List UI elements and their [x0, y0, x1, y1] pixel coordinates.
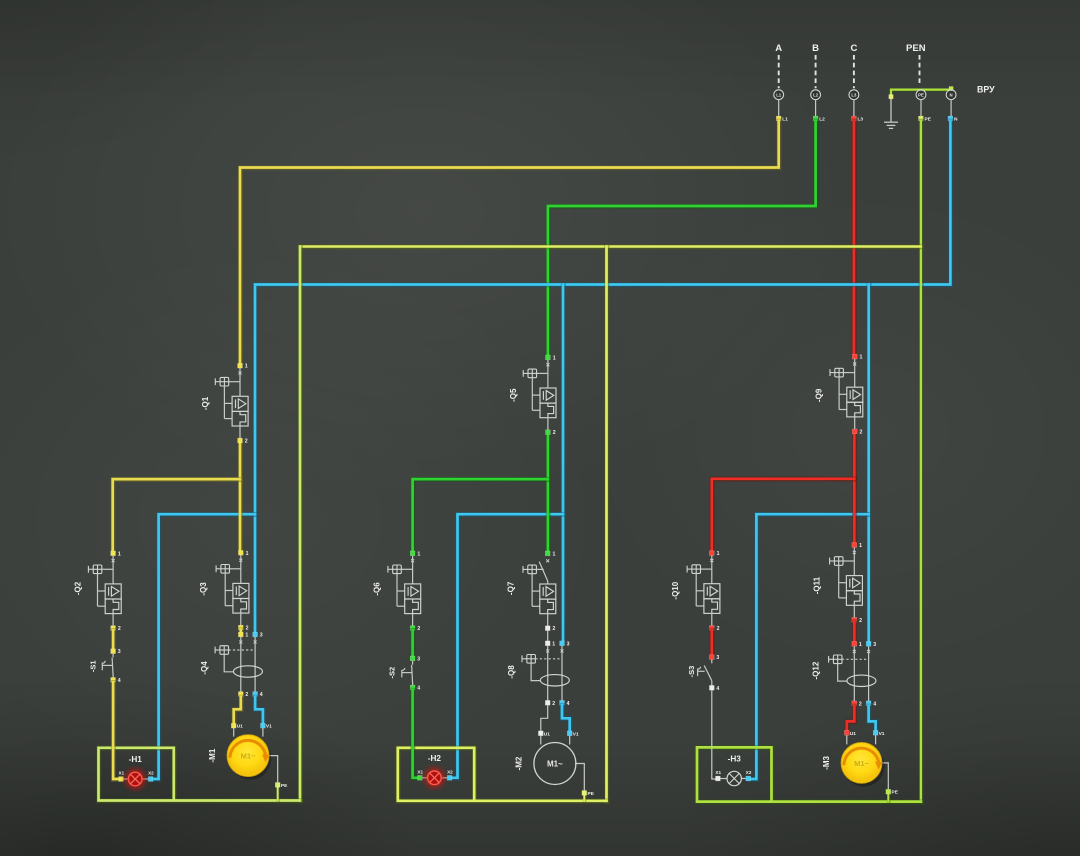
svg-text:2: 2 — [552, 701, 555, 707]
node A (phase A incomer) — [774, 43, 788, 122]
svg-text:PE: PE — [892, 790, 899, 796]
switch -S1 — [89, 649, 121, 684]
wire Q10 to S3 — [709, 630, 714, 655]
wire Q12 to motor M3 phase — [847, 706, 855, 731]
motor -M1 — [208, 723, 288, 789]
terminal PE of -M3 — [886, 789, 891, 794]
svg-text:4: 4 — [873, 701, 876, 707]
svg-text:4: 4 — [567, 701, 570, 707]
node PEN incomer — [906, 43, 926, 86]
circuit breaker -Q1 — [201, 363, 248, 444]
wire PE drop group 2 — [604, 247, 609, 802]
circuit breaker -Q3 — [199, 550, 249, 631]
circuit breaker -Q2 — [74, 551, 122, 632]
wire Q12 to motor M3 neutral — [869, 706, 876, 731]
svg-text:N: N — [950, 92, 953, 97]
svg-text:V1: V1 — [879, 731, 885, 737]
svg-text:2: 2 — [859, 701, 862, 707]
motor -M2 — [515, 731, 595, 797]
wire PE-N link — [891, 90, 951, 97]
svg-text:1: 1 — [553, 355, 556, 361]
svg-text:A: A — [775, 43, 782, 54]
ground (earth symbol) — [884, 99, 898, 128]
wire Q8 to motor M2 phase (de-energized) — [541, 705, 548, 731]
circuit breaker -Q6 — [373, 551, 421, 632]
svg-text:2: 2 — [860, 429, 863, 435]
node PE — [916, 90, 932, 123]
svg-text:PE: PE — [925, 116, 932, 122]
svg-text:-Q2: -Q2 — [74, 581, 83, 595]
svg-text:2: 2 — [553, 430, 556, 436]
svg-text:X2: X2 — [746, 770, 752, 775]
svg-text:-Q11: -Q11 — [813, 576, 822, 594]
node B (phase B incomer) — [811, 43, 825, 122]
svg-text:1: 1 — [553, 551, 556, 557]
svg-text:1: 1 — [717, 551, 720, 557]
wire Q11 to Q12 — [852, 622, 857, 642]
svg-text:-Q3: -Q3 — [199, 582, 208, 596]
svg-text:-H3: -H3 — [728, 755, 742, 764]
svg-text:V1: V1 — [266, 724, 272, 730]
wire phase A branch to Q2 — [113, 479, 241, 551]
svg-text:-Q6: -Q6 — [373, 582, 382, 596]
svg-text:2: 2 — [417, 626, 420, 632]
svg-text:-S3: -S3 — [687, 666, 696, 678]
wire phase A bus (yellow) — [240, 121, 779, 364]
svg-text:-S1: -S1 — [89, 660, 98, 672]
svg-text:3: 3 — [118, 649, 121, 655]
wire S1 to lamp H1 — [113, 682, 119, 779]
wire PE enclosure lamp H1 — [99, 748, 301, 801]
svg-text:1: 1 — [859, 543, 862, 549]
svg-text:M1~: M1~ — [241, 752, 256, 761]
svg-text:1: 1 — [245, 633, 248, 639]
svg-text:X1: X1 — [715, 770, 721, 775]
svg-text:L1: L1 — [782, 116, 788, 122]
wire phase C feeder — [852, 434, 857, 543]
wire Q2 to S1 — [111, 630, 116, 649]
RCD -Q4 — [200, 632, 263, 698]
circuit breaker -Q5 — [509, 355, 556, 436]
svg-text:4: 4 — [118, 678, 121, 684]
signal lamp -H1 — [119, 755, 155, 793]
svg-text:PEN: PEN — [906, 43, 926, 54]
svg-text:U1: U1 — [237, 724, 243, 730]
switch -S2 — [388, 656, 421, 692]
svg-text:4: 4 — [260, 692, 263, 698]
wire phase B branch to Q6 — [413, 479, 549, 551]
svg-text:-Q4: -Q4 — [200, 661, 209, 675]
wire phase C bus (red) — [851, 121, 856, 355]
svg-text:2: 2 — [553, 626, 556, 632]
signal lamp -H2 — [417, 754, 453, 792]
svg-text:-S2: -S2 — [388, 667, 397, 679]
wire Q8 to motor M2 neutral — [562, 705, 570, 731]
wire phase C branch to Q10 — [712, 479, 855, 551]
wire Q3 to Q4 — [238, 630, 243, 633]
svg-text:M1~: M1~ — [547, 760, 563, 769]
svg-text:-M2: -M2 — [515, 756, 524, 770]
svg-text:U1: U1 — [544, 731, 550, 737]
switch -S3 — [687, 655, 719, 692]
terminal ground node — [889, 95, 893, 99]
signal lamp -H3 — [715, 755, 751, 786]
node N — [946, 90, 958, 123]
svg-text:L2: L2 — [813, 92, 819, 97]
circuit breaker -Q7 — [506, 551, 556, 632]
svg-text:PE: PE — [588, 791, 595, 797]
wire N branch to lamp H3 — [751, 514, 869, 779]
wire N drop group 2 — [561, 285, 566, 642]
svg-text:1: 1 — [245, 364, 248, 370]
circuit breaker -Q11 — [813, 543, 863, 624]
svg-text:-Q8: -Q8 — [507, 665, 516, 679]
svg-text:-M3: -M3 — [822, 755, 831, 769]
svg-text:ВРУ: ВРУ — [977, 85, 995, 95]
svg-text:-Q12: -Q12 — [812, 661, 821, 679]
svg-text:3: 3 — [417, 656, 420, 662]
svg-text:V1: V1 — [573, 731, 579, 737]
svg-text:4: 4 — [417, 686, 420, 692]
svg-text:L3: L3 — [851, 92, 857, 97]
terminal PE of -M2 — [582, 791, 587, 796]
svg-text:C: C — [850, 43, 857, 54]
svg-text:-Q1: -Q1 — [201, 396, 210, 410]
wire S3 to lamp H3 (de-energized) — [712, 690, 716, 779]
wire PE enclosure lamp H2 — [398, 748, 607, 801]
svg-text:1: 1 — [118, 551, 121, 557]
svg-text:M1~: M1~ — [854, 759, 869, 768]
wire PE enclosure lamp H3 — [697, 747, 921, 802]
svg-text:-Q9: -Q9 — [814, 388, 823, 402]
svg-text:-H2: -H2 — [428, 754, 442, 763]
wire PE main bus — [918, 121, 923, 802]
svg-text:3: 3 — [873, 642, 876, 648]
node junction on N — [949, 87, 953, 91]
svg-text:X2: X2 — [447, 769, 453, 774]
node C (phase C incomer) — [849, 43, 863, 122]
wire N branch to lamp H1 — [153, 514, 255, 779]
svg-text:L1: L1 — [776, 92, 782, 97]
wire PE drop group 1 — [298, 247, 303, 801]
wire Q4 to motor M1 phase — [234, 697, 241, 724]
wire PE stub motor M1 — [276, 787, 280, 801]
wire N branch to lamp H2 — [452, 514, 563, 778]
svg-text:1: 1 — [860, 355, 863, 361]
wire phase B bus (green) — [548, 121, 816, 356]
svg-text:1: 1 — [552, 641, 555, 647]
svg-text:2: 2 — [717, 626, 720, 632]
wire N bus (blue) — [255, 121, 951, 633]
wire PE horizontal bus — [300, 244, 921, 249]
svg-text:PE: PE — [281, 783, 288, 789]
svg-text:3: 3 — [716, 655, 719, 661]
svg-text:2: 2 — [245, 439, 248, 445]
wire N drop group 3 — [866, 285, 871, 642]
circuit breaker -Q10 — [671, 551, 720, 632]
svg-text:-H1: -H1 — [129, 755, 143, 764]
svg-text:1: 1 — [417, 551, 420, 557]
svg-text:2: 2 — [245, 692, 248, 698]
terminal PE of -M1 — [275, 783, 280, 788]
motor -M3 — [822, 730, 899, 795]
svg-text:L3: L3 — [858, 116, 864, 122]
svg-text:-Q10: -Q10 — [671, 581, 680, 599]
wire phase B feeder — [545, 436, 550, 551]
svg-text:1: 1 — [859, 642, 862, 648]
svg-text:2: 2 — [118, 626, 121, 632]
svg-text:3: 3 — [567, 641, 570, 647]
wire phase A feeder — [238, 443, 243, 551]
svg-text:-Q7: -Q7 — [506, 581, 515, 595]
svg-text:X2: X2 — [148, 771, 154, 776]
svg-text:PE: PE — [918, 92, 924, 97]
svg-text:L2: L2 — [819, 116, 825, 122]
RCD -Q8 — [507, 641, 570, 707]
svg-text:U1: U1 — [850, 731, 856, 737]
wire Q4 to motor M1 neutral — [255, 697, 263, 724]
circuit breaker -Q9 — [814, 354, 863, 435]
wire S2 to lamp H2 — [413, 690, 418, 778]
wire Q7 to Q8 (de-energized) — [547, 630, 549, 641]
svg-text:2: 2 — [859, 618, 862, 624]
svg-text:-Q5: -Q5 — [509, 388, 518, 402]
svg-text:2: 2 — [246, 626, 249, 632]
svg-text:N: N — [954, 116, 958, 122]
wire PE stub motor M3 — [887, 794, 891, 802]
svg-text:-M1: -M1 — [208, 748, 217, 762]
svg-text:B: B — [812, 43, 819, 54]
svg-text:4: 4 — [716, 686, 719, 692]
wire PE stub motor M2 — [583, 795, 587, 801]
wire Q6 to S2 — [410, 630, 415, 656]
svg-text:1: 1 — [246, 551, 249, 557]
RCD -Q12 — [812, 641, 877, 707]
svg-text:3: 3 — [260, 633, 263, 639]
